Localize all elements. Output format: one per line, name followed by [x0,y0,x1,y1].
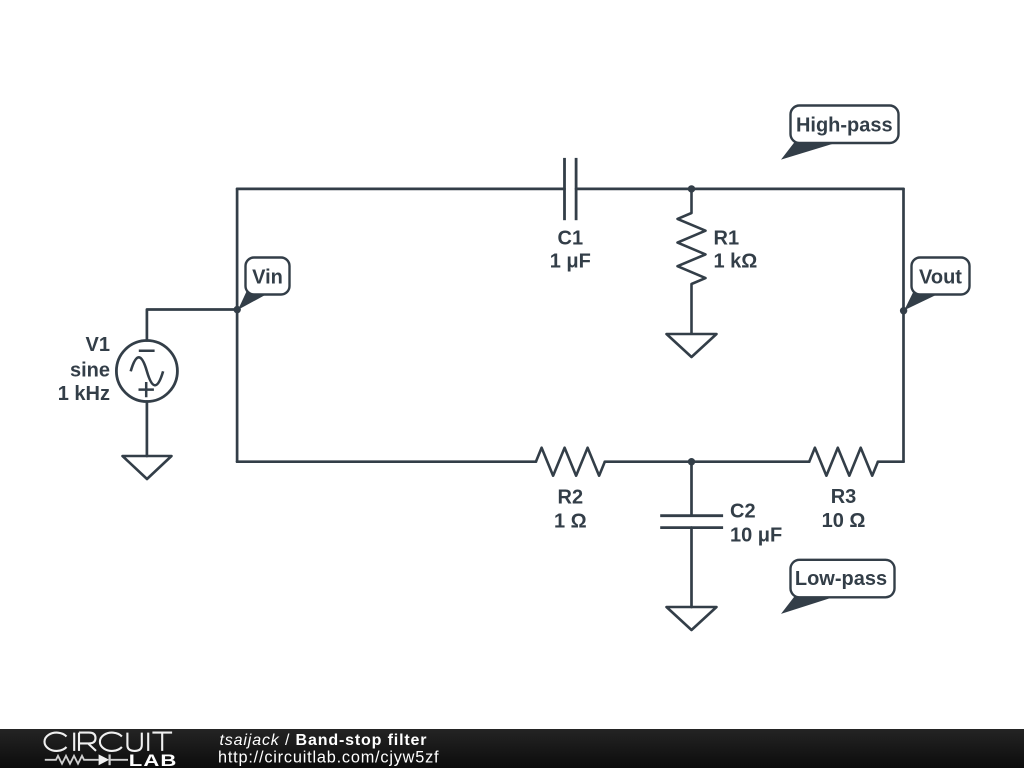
logo CIRCUIT wordmark [44,733,172,751]
wire V1 top to Vin node [147,310,237,341]
label C2 name/value [730,501,782,547]
annotation Low-pass bubble [781,560,895,614]
svg-text:1 Ω: 1 Ω [554,511,587,533]
footer bar [0,729,1024,768]
svg-text:1 kΩ: 1 kΩ [714,251,758,273]
wire bottom-middle horizontal (R2 right to R3 left) [605,460,809,463]
svg-text:Vout: Vout [919,267,962,289]
resistor R3 [809,448,878,476]
capacitor C1 [565,158,577,220]
label R2 name/value [554,487,587,533]
capacitor C2 [660,516,723,528]
wire bottom-right horizontal (R3 right to corner) [878,460,904,463]
resistor R2 [536,448,605,476]
svg-text:1 kHz: 1 kHz [58,383,110,405]
svg-text:C2: C2 [730,501,756,523]
label R1 name/value [714,228,758,273]
svg-text:R2: R2 [558,487,584,509]
svg-text:sine: sine [70,360,110,382]
ground below V1 [123,456,172,479]
svg-text:LAB: LAB [129,751,178,768]
svg-text:Vin: Vin [252,267,283,289]
ground below R1 [667,334,717,357]
wire right vertical (top-right corner down to R3 right end) [902,189,905,462]
svg-text:10 μF: 10 μF [730,525,782,547]
net label Vout bubble [904,258,969,311]
node Vout junction dot [900,307,907,314]
svg-text:tsaijack / Band-stop filter: tsaijack / Band-stop filter [220,732,428,749]
svg-text:R3: R3 [831,486,857,508]
svg-text:V1: V1 [86,334,110,356]
wire V1 bottom to ground [146,402,149,457]
wire top-left horizontal (Vin node to C1 left plate) [237,188,564,191]
label C1 name/value [550,228,591,273]
label R3 name/value [822,486,866,532]
wire top-right horizontal (C1 right plate to top-right corner) [576,188,903,191]
net label Vin bubble [238,258,290,310]
svg-text:R1: R1 [714,228,740,250]
node top junction dot (C1/R1) [688,185,695,192]
node Vin junction dot [234,306,241,313]
annotation High-pass bubble [781,106,899,160]
svg-text:http://circuitlab.com/cjyw5zf: http://circuitlab.com/cjyw5zf [218,748,439,766]
wire left vertical (top-left corner down to bottom-left corner) [236,189,239,462]
svg-text:1 μF: 1 μF [550,251,591,273]
svg-text:Low-pass: Low-pass [795,568,887,590]
wire C2 bottom lead to ground [690,528,693,607]
svg-text:C1: C1 [558,228,584,250]
resistor R1 [678,189,706,334]
svg-text:High-pass: High-pass [796,115,893,137]
wire bottom-left horizontal (to R2 left) [237,460,536,463]
node bottom junction dot (R2/C2/R3) [688,458,695,465]
voltage source V1 (sine 1 kHz) [116,341,177,402]
label V1 name/value [58,334,110,405]
ground below C2 [667,607,717,630]
svg-text:10 Ω: 10 Ω [822,510,866,532]
logo resistor-diode glyph [45,754,128,765]
wire C2 top lead [690,462,693,516]
